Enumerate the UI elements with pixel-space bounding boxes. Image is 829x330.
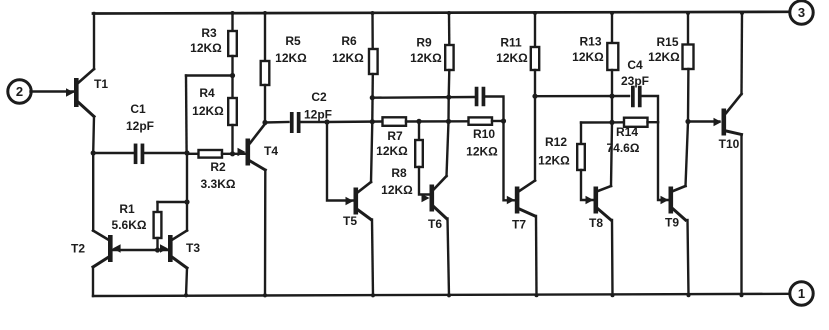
capacitor C4 (621, 58, 658, 122)
svg-text:R7: R7 (387, 129, 403, 143)
wire T7 base drop (504, 121, 515, 200)
svg-text:12KΩ: 12KΩ (332, 51, 364, 65)
wire T2 emitter to bottom rail (92, 267, 94, 296)
svg-text:12pF: 12pF (126, 119, 154, 133)
svg-text:C2: C2 (311, 90, 327, 104)
resistor R6 (332, 13, 377, 122)
node T7 collector tap (532, 94, 537, 99)
resistor R11 (496, 13, 539, 96)
svg-text:1: 1 (798, 286, 805, 301)
wire R3R4 tap (186, 73, 235, 78)
svg-text:R9: R9 (416, 36, 432, 50)
terminal 3 (790, 1, 813, 24)
resistor R1 (112, 202, 162, 250)
svg-text:5.6KΩ: 5.6KΩ (112, 218, 147, 232)
terminal 2 (8, 80, 31, 103)
svg-text:T9: T9 (665, 216, 679, 230)
svg-text:12pF: 12pF (304, 108, 332, 122)
svg-text:R3: R3 (201, 26, 217, 40)
wire T5 emitter to bottom rail (372, 220, 373, 297)
svg-text:T1: T1 (94, 77, 108, 91)
node C1-R2 junction (184, 150, 189, 155)
svg-text:C1: C1 (130, 102, 146, 116)
svg-text:12KΩ: 12KΩ (192, 104, 224, 118)
svg-text:R5: R5 (285, 34, 301, 48)
svg-text:12KΩ: 12KΩ (538, 154, 570, 168)
wire input to T1 base (31, 90, 75, 92)
wire rail to T10 collector (740, 13, 743, 94)
svg-text:3: 3 (798, 5, 805, 20)
wire R3-R4 (231, 56, 233, 98)
transistor T10 (714, 94, 742, 151)
capacitor C1 (93, 102, 187, 164)
svg-text:C4: C4 (627, 58, 643, 72)
resistor R15 (648, 13, 693, 122)
wire T9 emitter to bottom rail (688, 220, 689, 295)
transistor T9 (661, 186, 686, 230)
wire C2 to R7 (327, 119, 383, 124)
svg-text:R6: R6 (341, 34, 357, 48)
wire T7 collector to C4 (535, 94, 629, 99)
wire R12 top to R14 node (581, 120, 615, 125)
node T4 collector (262, 120, 267, 125)
wire T10 base (688, 120, 719, 122)
resistor R2 (187, 150, 246, 191)
wire top supply rail (93, 11, 790, 15)
svg-text:T4: T4 (264, 144, 278, 158)
svg-text:23pF: 23pF (621, 74, 649, 88)
svg-text:R10: R10 (473, 127, 495, 141)
resistor R8 (381, 121, 429, 197)
transistor T8 (586, 186, 612, 230)
svg-text:2: 2 (16, 84, 23, 99)
node R10-T7 base (501, 118, 506, 123)
node T10 base tap (685, 119, 690, 124)
svg-text:3.3KΩ: 3.3KΩ (201, 177, 236, 191)
svg-text:12KΩ: 12KΩ (466, 145, 498, 159)
capacitor C3 (475, 87, 504, 121)
svg-text:T6: T6 (428, 217, 442, 231)
wire left column above T1 (93, 13, 95, 69)
svg-text:12KΩ: 12KΩ (381, 183, 413, 197)
resistor R10 (466, 117, 503, 158)
wire R11 column to T7 collector (534, 96, 536, 180)
svg-text:12KΩ: 12KΩ (190, 41, 222, 55)
svg-text:T2: T2 (71, 242, 85, 256)
svg-text:R11: R11 (500, 36, 522, 50)
wire T6 emitter to bottom rail (448, 219, 450, 297)
svg-text:12KΩ: 12KΩ (376, 144, 408, 158)
svg-text:12KΩ: 12KΩ (648, 50, 680, 64)
resistor R7 (376, 117, 468, 158)
wire R15 column to T9 collector (686, 122, 689, 187)
resistor R12 (538, 123, 593, 201)
svg-text:12KΩ: 12KΩ (496, 51, 528, 65)
wire column to T3 collector (184, 153, 189, 231)
resistor R14 (607, 118, 658, 155)
svg-text:T8: T8 (589, 216, 603, 230)
svg-text:R4: R4 (199, 86, 215, 100)
resistor R3 (190, 13, 237, 56)
wire T4 emitter to bottom rail (264, 170, 267, 296)
svg-text:R13: R13 (579, 35, 601, 49)
resistor R9 (410, 13, 453, 121)
wire T8 emitter to bottom rail (611, 220, 614, 296)
wire T5 base drop (327, 122, 354, 201)
wire T3 emitter to bottom rail (186, 268, 187, 296)
node T5 base tap (324, 119, 329, 124)
wire T2-T3 base (113, 247, 168, 252)
resistor R13 (572, 13, 618, 122)
transistor T4 (238, 124, 279, 171)
wire R6 column to T5 collector (371, 122, 372, 182)
wire R14 right to T9 base (658, 122, 668, 200)
wire feedback column x187 (185, 76, 188, 154)
wire R13 column to T8 collector (611, 122, 612, 186)
transistor T1 (66, 69, 108, 117)
wire R1 top to feedback column (158, 201, 188, 203)
transistor T7 (507, 181, 535, 232)
resistor R4 (192, 86, 237, 154)
wire T10 emitter to bottom rail (740, 135, 742, 296)
svg-text:T3: T3 (186, 241, 200, 255)
transistor T2 (71, 231, 121, 268)
wire bottom rail (93, 293, 790, 297)
transistor T3 (160, 231, 200, 269)
transistor T5 (343, 182, 371, 228)
resistor R5 (261, 13, 307, 124)
svg-text:R2: R2 (210, 160, 226, 174)
svg-text:R1: R1 (119, 202, 135, 216)
wire R9 column to T6 collector (447, 121, 449, 176)
svg-text:T5: T5 (343, 214, 357, 228)
svg-text:R8: R8 (391, 166, 407, 180)
svg-text:12KΩ: 12KΩ (410, 51, 442, 65)
svg-text:12KΩ: 12KΩ (572, 50, 604, 64)
wire T7 emitter to bottom rail (535, 216, 538, 296)
wire T5 column tap to C3 (370, 95, 474, 101)
capacitor C2 (265, 90, 332, 133)
svg-text:R15: R15 (656, 35, 678, 49)
svg-text:R14: R14 (616, 125, 638, 139)
svg-text:R12: R12 (545, 135, 567, 149)
svg-text:12KΩ: 12KΩ (275, 51, 307, 65)
wire left column T1 emitter to T2 collector (91, 117, 96, 231)
transistor T6 (422, 176, 447, 231)
svg-text:T10: T10 (719, 137, 740, 151)
terminal 1 (790, 282, 813, 305)
svg-text:T7: T7 (512, 218, 526, 232)
